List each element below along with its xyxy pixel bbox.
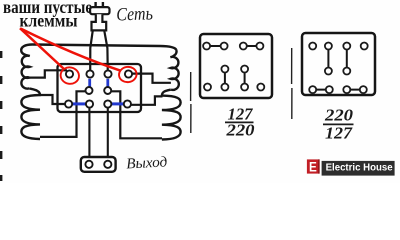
wire: b3 down to output socket [107, 104, 109, 160]
block A stud m2 [241, 66, 248, 73]
socket pin L [85, 161, 92, 168]
terminal c3 [104, 70, 111, 77]
block A stud u1 [204, 84, 211, 91]
svg-text:Electric House: Electric House [326, 163, 394, 174]
terminal board [58, 64, 142, 112]
winding W1 lower-left large loops [21, 88, 40, 139]
block B stud m1 [325, 68, 332, 75]
wire: m1 to left winding bottom end [40, 91, 86, 137]
socket pin R [104, 161, 111, 168]
annotation label "ваши пустые клеммы" [3, 0, 92, 31]
svg-text:220: 220 [225, 121, 254, 140]
svg-text:клеммы: клеммы [20, 11, 78, 31]
red callout line to c4 [21, 29, 120, 71]
scan fold line between figures (left) [190, 72, 192, 133]
svg-text:E: E [309, 159, 317, 174]
winding W2 upper-right small scallops [170, 50, 178, 90]
block A vertical link m1-b2 [224, 69, 226, 87]
wire: m2 to right winding bottom end [110, 91, 162, 138]
terminal b3 [104, 100, 111, 107]
terminal block B (220/127) [302, 33, 375, 95]
block B stud u1 [309, 86, 316, 93]
terminal c1 [66, 70, 73, 77]
winding W2 lower-right large loops [162, 90, 181, 140]
svg-text:Выход: Выход [126, 154, 168, 172]
svg-text:Сеть: Сеть [116, 4, 153, 25]
terminal m2 [104, 87, 111, 94]
page edge marks [0, 51, 2, 181]
terminal b4 [124, 100, 131, 107]
block A stud u4 [257, 84, 264, 91]
wire: mains plug right lead to terminal c3 [104, 30, 108, 74]
wire: mains plug left lead to terminal c2 [90, 30, 93, 74]
red ellipse around c1 [59, 66, 80, 85]
block A stud t3 [240, 43, 247, 50]
wire: b4 to lower-right winding tap [130, 96, 163, 104]
block B stud u4 [360, 86, 367, 93]
label 220 over 127 [324, 106, 353, 143]
block A stud u3 [241, 84, 248, 91]
wire: c4 to upper-right winding tap [131, 74, 171, 83]
block A stud t4 [256, 43, 263, 50]
block B link u1-u2 [313, 89, 330, 91]
block A vertical link m2-b3 [244, 69, 246, 87]
scan fold line between figures (right) [291, 48, 293, 119]
block B stud m2 [343, 68, 350, 75]
jumper: blue horizontal b1-b2 [72, 102, 86, 105]
block A stud m1 [221, 66, 228, 73]
terminal b1 [65, 100, 72, 107]
svg-text:220: 220 [324, 106, 353, 125]
terminal b2 [86, 100, 93, 107]
label 127 over 220 [225, 105, 254, 140]
jumper: blue vertical c2-m1 [88, 79, 91, 89]
winding W1 upper-left small scallops [21, 44, 33, 88]
terminal m1 [86, 87, 93, 94]
svg-text:127: 127 [325, 124, 353, 143]
red callout line to c1 [20, 28, 65, 69]
wire: b2 down to output socket [88, 104, 90, 160]
block B vertical link t2-m1 [327, 46, 329, 71]
block B stud t4 [361, 43, 368, 50]
block B stud u3 [343, 86, 350, 93]
transformer T1 outline (top edge) [33, 45, 176, 51]
jumper: blue horizontal b3-b4 [111, 102, 124, 105]
red ellipse around c4 [118, 66, 138, 84]
terminal c2 [86, 70, 93, 77]
block B stud t3 [343, 43, 350, 50]
logo Electric House [307, 159, 320, 173]
terminal c4 [125, 70, 132, 77]
block A link c3-c4 [243, 45, 260, 47]
block B vertical link t3-m2 [346, 46, 348, 71]
block A stud t2 [221, 43, 228, 50]
wire: upper-left winding tap to c1 [30, 70, 68, 77]
mains plug X1 [90, 2, 109, 30]
wire: lower-left winding tap to b1 [40, 95, 67, 104]
block B link u3-u4 [347, 89, 364, 91]
output socket X2 [81, 157, 116, 172]
terminal block A (127/220) [200, 34, 272, 98]
block A stud t1 [203, 43, 210, 50]
jumper: blue vertical c3-m2 [106, 79, 109, 89]
block B stud t2 [325, 43, 332, 50]
block A stud u2 [221, 84, 228, 91]
block B stud u2 [326, 86, 333, 93]
block A link c1-c2 [207, 45, 225, 47]
block B stud t1 [309, 43, 316, 50]
